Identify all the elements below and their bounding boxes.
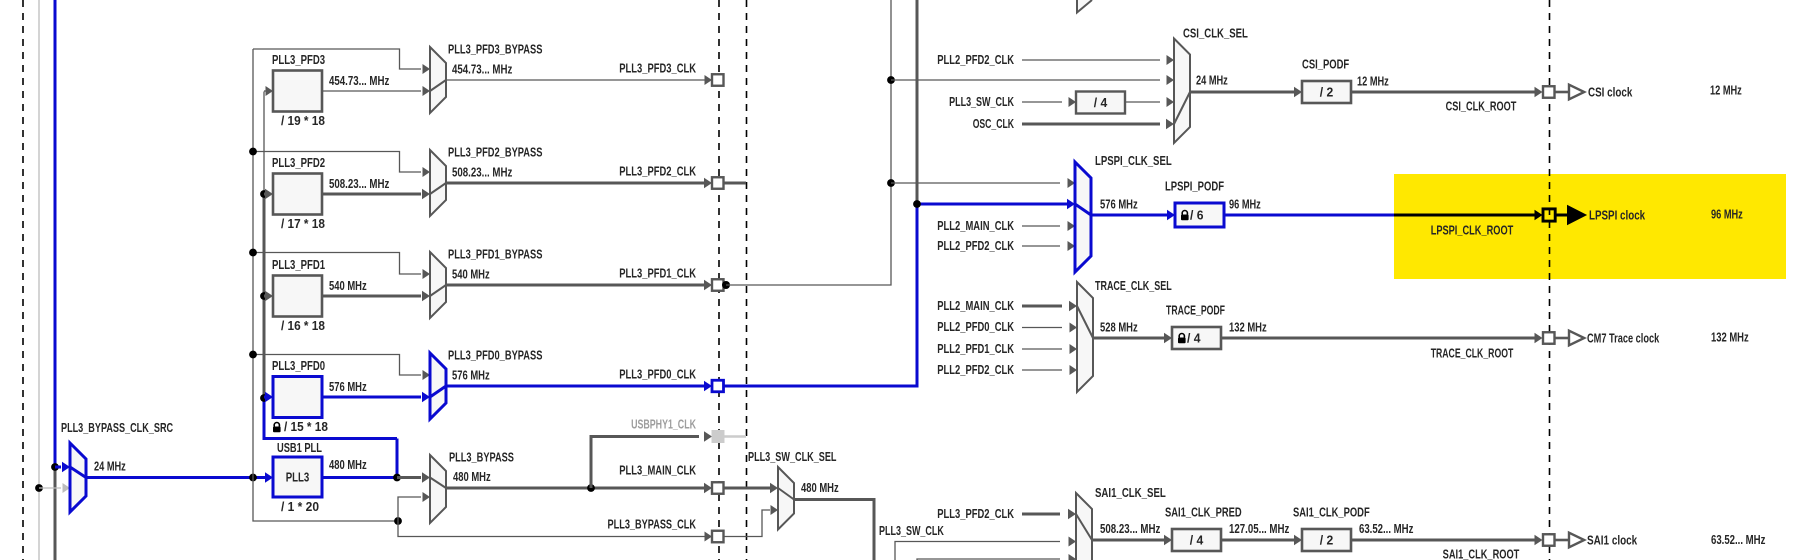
wire PLL2_PFD2_CLK into LPSPI mux — [1022, 245, 1060, 247]
svg-text:/ 2: / 2 — [1320, 85, 1334, 100]
junction bypass feed PLL3_PFD0 — [249, 351, 257, 359]
svg-text:SAI1_CLK_SEL: SAI1_CLK_SEL — [1095, 485, 1166, 500]
svg-text:576 MHz: 576 MHz — [1100, 197, 1138, 212]
svg-text:TRACE_CLK_ROOT: TRACE_CLK_ROOT — [1431, 346, 1514, 361]
wire PLL3_MAIN_CLK to port — [446, 487, 705, 490]
dashed boundary line right (clock root ports) — [1549, 0, 1551, 560]
wire PLL3_PFD3_CLK to port — [446, 79, 705, 81]
clock output symbol CM7 Trace — [1569, 331, 1584, 346]
port PLL3_PFD3_CLK — [712, 74, 724, 86]
lock icon PLL3_PFD0 divider locked — [274, 423, 279, 427]
arrow PLL3_PFD3_BYPASS input 1 — [423, 64, 431, 74]
arrow CSI input 3 — [1167, 97, 1175, 107]
svg-text:508.23... MHz: 508.23... MHz — [452, 165, 513, 180]
block PLL3_PFD0 fractional divider — [273, 377, 322, 418]
wire TRACE_CLK_ROOT to port — [1222, 337, 1536, 340]
arrow into TRACE_PODF — [1164, 333, 1172, 343]
arrow SAI1 input 1 — [1068, 509, 1076, 519]
arrow LPSPI_CLK_ROOT port — [1535, 210, 1543, 220]
wire PLL3_PFD2 output to bypass mux — [322, 193, 421, 196]
arrow TRACE input 3 — [1070, 344, 1078, 354]
wire PLL3_PFD2_CLK to port — [446, 182, 705, 185]
wire PLL3 480M loop to PFD inputs (blue) — [264, 398, 397, 439]
arrow PLL3_PFD3 input — [266, 86, 274, 96]
mux PLL3_BYPASS — [430, 455, 446, 523]
mux PLL3_PFD1_BYPASS — [430, 252, 446, 318]
arrow CSI input 4 — [1166, 119, 1174, 129]
svg-text:CSI clock: CSI clock — [1588, 85, 1633, 100]
svg-text:CSI_CLK_ROOT: CSI_CLK_ROOT — [1446, 99, 1517, 114]
junction bypass feed PLL3_PFD1 — [249, 249, 257, 257]
wire PLL3 output feed to PFD3 (thin) — [263, 92, 265, 195]
arrow PLL3_PFD2_CLK port — [704, 178, 712, 188]
dashed boundary line mid-right — [746, 0, 748, 560]
wire PLL2_PFD2_CLK into CSI mux — [1022, 59, 1160, 61]
arrow SAI1_CLK_SEL input 3 — [1069, 554, 1077, 560]
svg-text:/ 16 * 18: / 16 * 18 — [281, 318, 325, 333]
svg-text:540 MHz: 540 MHz — [329, 278, 367, 293]
wire PLL3_PFD3 output to bypass mux — [322, 90, 421, 92]
junction PFD1 input — [260, 292, 268, 300]
wire PLL3_PFD1 output to bypass mux — [322, 295, 421, 298]
arrow TRACE_CLK_ROOT port — [1535, 333, 1543, 343]
svg-text:132 MHz: 132 MHz — [1711, 330, 1749, 345]
arrow PLL3_MAIN_CLK port — [704, 483, 712, 493]
mux PLL3_SW_CLK_SEL — [778, 467, 794, 530]
wire PLL3_PFD1_CLK to port — [446, 284, 705, 287]
svg-text:PLL3_PFD0_BYPASS: PLL3_PFD0_BYPASS — [448, 348, 543, 363]
svg-text:/ 4: / 4 — [1094, 95, 1108, 110]
svg-text:SAI1 clock: SAI1 clock — [1587, 533, 1638, 548]
arrow PLL3_PFD0 input — [265, 392, 273, 402]
wire bypass feed to PLL3_BYPASS and PLL3_BYPASS_CLK — [253, 478, 398, 522]
arrow PLL3_BYPASS input 1 — [422, 472, 430, 482]
dashed boundary line mid-left (PLL output ports) — [718, 0, 720, 560]
svg-text:PLL3_PFD0: PLL3_PFD0 — [272, 358, 325, 373]
svg-text:PLL2_MAIN_CLK: PLL2_MAIN_CLK — [937, 298, 1014, 313]
wire PLL3_PFD0_CLK to port — [446, 385, 705, 388]
wire OSC_CLK into CSI mux input 4 — [1022, 123, 1160, 126]
wire 24 MHz bypass feed for PLL3_PFD1_BYPASS — [253, 253, 421, 275]
svg-text:PLL3_PFD3_BYPASS: PLL3_PFD3_BYPASS — [448, 42, 543, 57]
arrow CSI_CLK_ROOT port — [1535, 87, 1543, 97]
wire PLL2_PFD0_CLK into TRACE mux — [1022, 327, 1062, 329]
divider CSI_PODF /2 — [1302, 81, 1351, 103]
divider LPSPI_PODF /6 (locked) — [1175, 203, 1224, 227]
arrow PLL3_PFD3_BYPASS input 2 — [423, 86, 431, 96]
svg-text:PLL3_SW_CLK: PLL3_SW_CLK — [949, 94, 1014, 109]
mux TRACE_CLK_SEL — [1077, 282, 1093, 392]
clock output symbol CSI — [1569, 85, 1584, 100]
svg-text:PLL2_MAIN_CLK: PLL2_MAIN_CLK — [937, 218, 1014, 233]
arrow TRACE input 1 — [1069, 301, 1077, 311]
arrow PLL3_PFD1_BYPASS input 2 — [422, 291, 430, 301]
arrow input 2 PLL3_BYPASS_CLK_SRC (inactive) — [63, 483, 71, 493]
wire LPSPI mux to LPSPI_PODF — [1091, 214, 1168, 217]
wire 24 MHz bypass feed for PLL3_PFD0_BYPASS — [253, 355, 421, 376]
svg-text:PLL3_MAIN_CLK: PLL3_MAIN_CLK — [619, 463, 696, 478]
svg-text:24 MHz: 24 MHz — [94, 459, 126, 474]
wire vertical bus continuation below junction — [54, 467, 57, 560]
wire 24 MHz to PLL3_BYPASS_CLK port — [398, 521, 705, 537]
wire PLL3_PFD1_CLK into CSI mux input 2 — [891, 79, 1160, 81]
wire port to SAI1 clock symbol — [1554, 539, 1569, 542]
wire 24 MHz bypass feed for PLL3_PFD2_BYPASS — [253, 152, 421, 173]
divider TRACE_PODF /4 (locked) — [1172, 327, 1221, 349]
svg-text:LPSPI_CLK_ROOT: LPSPI_CLK_ROOT — [1431, 223, 1514, 238]
wire PLL3_BYPASS_CLK into PLL3_SW_CLK_SEL input 2 — [725, 510, 771, 537]
svg-text:/ 19 * 18: / 19 * 18 — [281, 113, 325, 128]
arrow TRACE input 2 — [1070, 323, 1078, 333]
mux CSI_CLK_SEL — [1174, 39, 1190, 144]
mux SAI1_CLK_SEL (clipped at bottom) — [1076, 493, 1092, 560]
wire PLL3 output 480 MHz — [322, 476, 397, 479]
arrow LPSPI input 2 (active) — [1067, 199, 1075, 209]
arrow PLL3_PFD0_BYPASS input 1 — [423, 370, 431, 380]
svg-text:PLL3_BYPASS_CLK_SRC: PLL3_BYPASS_CLK_SRC — [61, 420, 173, 435]
wire divider to CSI mux input 3 — [1126, 101, 1160, 103]
svg-text:PLL3_PFD3: PLL3_PFD3 — [272, 52, 325, 67]
svg-text:96 MHz: 96 MHz — [1229, 197, 1261, 212]
arrow PLL3_PFD3_CLK port — [705, 75, 713, 85]
wire into PLL3_PFD2 input — [264, 193, 266, 196]
wire PLL2_MAIN_CLK into TRACE mux — [1022, 305, 1062, 308]
svg-text:63.52... MHz: 63.52... MHz — [1711, 532, 1766, 547]
svg-text:CSI_PODF: CSI_PODF — [1302, 57, 1349, 72]
port CSI_CLK_ROOT — [1543, 86, 1555, 98]
svg-text:PLL3_PFD2: PLL3_PFD2 — [272, 155, 325, 170]
junction PLL3 output — [393, 474, 401, 482]
svg-text:PLL3_PFD2_BYPASS: PLL3_PFD2_BYPASS — [448, 145, 543, 160]
junction on inactive bus at PLL3_BYPASS_CLK_SRC input 2 — [35, 484, 43, 492]
svg-text:PLL3_PFD1: PLL3_PFD1 — [272, 257, 325, 272]
port USBPHY1_CLK (inactive) — [712, 431, 724, 443]
svg-text:PLL2_PFD1_CLK: PLL2_PFD1_CLK — [937, 341, 1014, 356]
block PLL3 (USB1 PLL) — [273, 457, 322, 497]
wire TRACE mux to TRACE_PODF — [1093, 337, 1165, 340]
svg-text:/ 4: / 4 — [1190, 533, 1204, 548]
junction PLL3_PFD0_CLK riser — [913, 200, 921, 208]
mux PLL3_PFD3_BYPASS — [430, 47, 446, 113]
svg-text:PLL3_BYPASS: PLL3_BYPASS — [449, 450, 514, 465]
dashed boundary line left — [22, 0, 24, 560]
svg-text:LPSPI clock: LPSPI clock — [1589, 208, 1646, 223]
wire PLL3_PFD2_CLK into SAI1 mux — [1022, 513, 1060, 516]
wire PLL3 input clock vertical bus (active blue) — [54, 0, 57, 467]
block PLL3_PFD1 fractional divider — [273, 276, 322, 317]
svg-text:576 MHz: 576 MHz — [452, 368, 490, 383]
svg-text:PLL3_BYPASS_CLK: PLL3_BYPASS_CLK — [608, 517, 697, 532]
wire PLL2_MAIN_CLK into LPSPI mux — [1022, 225, 1060, 227]
wire into PLL3_PFD0 input — [264, 396, 266, 399]
wire PLL3_SW_CLK from below into SAI1 mux — [895, 542, 1060, 560]
arrow into SAI1_CLK_PRED — [1164, 535, 1172, 545]
svg-text:PLL2_PFD2_CLK: PLL2_PFD2_CLK — [937, 238, 1014, 253]
svg-text:LPSPI_CLK_SEL: LPSPI_CLK_SEL — [1095, 153, 1172, 168]
svg-text:/ 2: / 2 — [1320, 533, 1334, 548]
arrow into CSI pre-divider — [1069, 97, 1077, 107]
svg-text:LPSPI_PODF: LPSPI_PODF — [1165, 179, 1224, 194]
svg-text:576 MHz: 576 MHz — [329, 379, 367, 394]
svg-text:480 MHz: 480 MHz — [329, 457, 367, 472]
divider SAI1_CLK_PODF /2 — [1302, 529, 1351, 551]
junction PFD0 input — [260, 394, 268, 402]
junction 24 MHz to bypass feed bus — [249, 474, 257, 482]
block PLL3_PFD2 fractional divider — [273, 174, 322, 215]
svg-text:/ 4: / 4 — [1187, 331, 1201, 346]
svg-text:528 MHz: 528 MHz — [1100, 320, 1138, 335]
arrow LPSPI input 3 — [1068, 221, 1076, 231]
port PLL3_MAIN_CLK — [712, 482, 724, 494]
junction on blue bus at PLL3_BYPASS_CLK_SRC input — [51, 463, 59, 471]
arrow PLL3_PFD2_BYPASS input 1 — [423, 167, 431, 177]
arrow SAI1_CLK_SEL input 2 — [1069, 537, 1077, 547]
svg-text:SAI1_CLK_ROOT: SAI1_CLK_ROOT — [1443, 547, 1520, 560]
junction PLL3_PFD1_CLK to CSI mux — [887, 76, 895, 84]
wire PLL3_SW_CLK to divider — [1022, 101, 1062, 103]
svg-text:PLL3_PFD3_CLK: PLL3_PFD3_CLK — [619, 61, 696, 76]
arrow into LPSPI_PODF — [1167, 210, 1175, 220]
svg-text:480 MHz: 480 MHz — [801, 480, 839, 495]
junction PLL3_MAIN_CLK to USBPHY1 — [587, 484, 595, 492]
mux PLL3_PFD2_BYPASS — [430, 150, 446, 216]
svg-text:/ 6: / 6 — [1190, 208, 1204, 223]
wire 480 MHz into PLL3_BYPASS input 1 — [397, 476, 421, 479]
arrow into SAI1_CLK_PODF — [1294, 535, 1302, 545]
svg-text:OSC_CLK: OSC_CLK — [973, 116, 1015, 131]
svg-text:CSI_CLK_SEL: CSI_CLK_SEL — [1183, 26, 1248, 41]
svg-text:96 MHz: 96 MHz — [1711, 207, 1743, 222]
wire port to CM7 Trace clock symbol — [1554, 337, 1569, 340]
wire 24 MHz into PLL3_BYPASS mux input 2 — [398, 497, 421, 521]
clock output symbol LPSPI (selected) — [1568, 206, 1587, 225]
clock output symbol SAI1 — [1569, 533, 1584, 548]
wire SAI1_CLK_ROOT to port — [1352, 539, 1536, 542]
arrow PLL3_SW_CLK_SEL input 2 — [771, 505, 779, 515]
arrow PLL3_PFD1_BYPASS input 1 — [423, 269, 431, 279]
arrow PLL3_PFD1_CLK port — [704, 280, 712, 290]
arrow PLL3_PFD0_BYPASS input 2 — [422, 392, 430, 402]
svg-text:PLL3_SW_CLK_SEL: PLL3_SW_CLK_SEL — [748, 449, 837, 464]
wire CSI_CLK_ROOT to port — [1352, 91, 1536, 94]
svg-text:454.73... MHz: 454.73... MHz — [452, 62, 513, 77]
arrow PLL3_PFD0_CLK port — [704, 381, 712, 391]
svg-text:PLL3_PFD2_CLK: PLL3_PFD2_CLK — [937, 506, 1014, 521]
svg-text:SAI1_CLK_PRED: SAI1_CLK_PRED — [1165, 505, 1242, 520]
wire PLL3_PFD0_CLK riser to muxes above — [916, 0, 919, 204]
wire USBPHY1_CLK stub after port (inactive) — [724, 435, 746, 437]
wire port to LPSPI clock symbol — [1555, 214, 1568, 217]
arrow PLL3_SW_CLK_SEL input 1 — [770, 483, 778, 493]
wire PLL3_SW_CLK down-riser — [794, 500, 874, 560]
port PLL3_BYPASS_CLK — [712, 531, 724, 543]
svg-text:24 MHz: 24 MHz — [1196, 73, 1228, 88]
mux PLL3_BYPASS_CLK_SRC — [70, 443, 86, 512]
svg-text:508.23... MHz: 508.23... MHz — [329, 176, 390, 191]
junction PLL3_PFD1_CLK to LPSPI mux — [887, 179, 895, 187]
svg-text:PLL3_PFD0_CLK: PLL3_PFD0_CLK — [619, 367, 696, 382]
arrow USBPHY1_CLK port — [704, 431, 712, 441]
wire PLL3_PFD1_CLK into LPSPI mux input 1 — [891, 182, 1060, 184]
svg-text:SAI1_CLK_PODF: SAI1_CLK_PODF — [1293, 505, 1370, 520]
wire 24 MHz bypass feed for PLL3_PFD3_BYPASS — [253, 49, 421, 69]
port PLL3_PFD0_CLK — [712, 380, 724, 392]
junction PLL3_PFD1_CLK after port — [722, 281, 730, 289]
arrow PLL3_BYPASS input 2 — [423, 492, 431, 502]
svg-text:12 MHz: 12 MHz — [1357, 74, 1389, 89]
arrow PLL3_BYPASS_CLK port — [705, 532, 713, 542]
arrow CSI input 2 — [1167, 75, 1175, 85]
wire PLL3 output feed PFD2-PFD0 (thick) — [263, 194, 266, 398]
arrow PLL3_PFD2_BYPASS input 2 — [422, 189, 430, 199]
port PLL3_PFD2_CLK — [712, 177, 724, 189]
mux LPSPI_CLK_SEL (active) — [1075, 162, 1091, 272]
arrow PLL3_PFD2 input — [265, 189, 273, 199]
wire LPSPI_CLK_ROOT black segment in highlight — [1394, 214, 1536, 217]
svg-text:USB1 PLL: USB1 PLL — [277, 440, 322, 455]
port PLL3_PFD1_CLK — [712, 279, 724, 291]
arrow CSI input 1 — [1167, 55, 1175, 65]
wire OSC 24M vertical bus (inactive) — [38, 0, 40, 560]
svg-text:PLL3_SW_CLK: PLL3_SW_CLK — [879, 523, 944, 538]
highlight LPSPI selection (yellow) — [1394, 174, 1786, 279]
wire SAI1_CLK_PRED to SAI1_CLK_PODF — [1221, 539, 1295, 542]
svg-text:454.73... MHz: 454.73... MHz — [329, 73, 390, 88]
wire into PLL3_PFD1 input — [264, 295, 266, 298]
svg-text:PLL2_PFD0_CLK: PLL2_PFD0_CLK — [937, 319, 1014, 334]
wire SAI1 mux to SAI1_CLK_PRED — [1092, 539, 1165, 542]
wire PLL2_PFD1_CLK into TRACE mux — [1022, 348, 1062, 350]
wire PLL3 output up to PFD feed loop — [396, 439, 399, 478]
wire into PLL3_BYPASS_CLK_SRC input 2 (inactive) — [39, 487, 61, 489]
svg-text:63.52... MHz: 63.52... MHz — [1359, 521, 1414, 536]
svg-text:PLL3: PLL3 — [286, 470, 310, 485]
wire PLL3_PFD2_CLK stub after port — [725, 182, 747, 185]
wire into PLL3_PFD3 input — [264, 90, 266, 92]
port SAI1_CLK_ROOT — [1543, 534, 1555, 546]
arrow SAI1_CLK_ROOT port — [1535, 535, 1543, 545]
svg-text:12 MHz: 12 MHz — [1710, 83, 1742, 98]
wire PLL3_PFD0 output to bypass mux — [322, 396, 421, 399]
wire 24 MHz from PLL3_BYPASS_CLK_SRC to PLL3 — [86, 476, 266, 479]
arrow PLL3_PFD1 input — [265, 291, 273, 301]
wire bypass feed vertical bus — [252, 49, 254, 478]
wire branch to USBPHY1_CLK port — [591, 437, 699, 489]
wire PLL3_PFD1_CLK riser to CSI/LPSPI muxes — [726, 0, 891, 285]
svg-text:PLL2_PFD2_CLK: PLL2_PFD2_CLK — [937, 362, 1014, 377]
wire input 3 into SAI1 mux from below — [917, 559, 1060, 560]
svg-text:127.05... MHz: 127.05... MHz — [1229, 521, 1290, 536]
wire CSI mux to CSI_PODF — [1190, 91, 1295, 94]
wire PLL3_PFD0_CLK blue route to LPSPI mux — [725, 204, 1068, 386]
arrow PLL3 input — [265, 472, 273, 482]
arrow LPSPI input 1 — [1068, 178, 1076, 188]
divider SAI1_CLK_PRED /4 — [1172, 529, 1221, 551]
svg-text:CM7 Trace clock: CM7 Trace clock — [1587, 331, 1660, 346]
mux (clipped at top edge) — [1077, 0, 1092, 13]
mux PLL3_PFD0_BYPASS — [430, 353, 446, 419]
svg-text:TRACE_PODF: TRACE_PODF — [1166, 303, 1225, 318]
wire PLL3_MAIN_CLK into PLL3_SW_CLK_SEL — [725, 487, 771, 490]
svg-text:508.23... MHz: 508.23... MHz — [1100, 521, 1161, 536]
junction bypass feed split — [394, 517, 402, 525]
svg-text:USBPHY1_CLK: USBPHY1_CLK — [631, 417, 696, 432]
svg-text:TRACE_CLK_SEL: TRACE_CLK_SEL — [1095, 278, 1172, 293]
svg-text:PLL3_PFD2_CLK: PLL3_PFD2_CLK — [619, 164, 696, 179]
wire into PLL3_BYPASS_CLK_SRC input 1 — [55, 466, 61, 469]
svg-text:PLL2_PFD2_CLK: PLL2_PFD2_CLK — [937, 52, 1014, 67]
arrow LPSPI input 4 — [1068, 241, 1076, 251]
junction bypass feed PLL3_PFD2 — [249, 148, 257, 156]
port TRACE_CLK_ROOT — [1543, 332, 1555, 344]
port LPSPI_CLK_ROOT (selected) — [1543, 209, 1555, 221]
svg-text:/ 1 * 20: / 1 * 20 — [281, 499, 319, 514]
svg-text:540 MHz: 540 MHz — [452, 267, 490, 282]
junction PFD2 input — [260, 190, 268, 198]
block PLL3_PFD3 fractional divider — [273, 71, 322, 112]
svg-text:/ 17 * 18: / 17 * 18 — [281, 216, 325, 231]
arrow input 1 PLL3_BYPASS_CLK_SRC — [62, 462, 70, 472]
svg-text:132 MHz: 132 MHz — [1229, 320, 1267, 335]
svg-text:480 MHz: 480 MHz — [453, 469, 491, 484]
divider CSI /4 — [1076, 92, 1125, 114]
svg-text:PLL3_PFD1_CLK: PLL3_PFD1_CLK — [619, 266, 696, 281]
wire LPSPI_CLK_ROOT blue segment — [1225, 214, 1394, 217]
svg-text:/ 15 * 18: / 15 * 18 — [284, 419, 328, 434]
wire PLL2_PFD2_CLK into TRACE mux — [1022, 369, 1062, 371]
arrow TRACE input 4 — [1070, 365, 1078, 375]
svg-text:PLL3_PFD1_BYPASS: PLL3_PFD1_BYPASS — [448, 247, 543, 262]
wire port to CSI clock symbol — [1554, 91, 1569, 94]
arrow into CSI_PODF — [1294, 87, 1302, 97]
